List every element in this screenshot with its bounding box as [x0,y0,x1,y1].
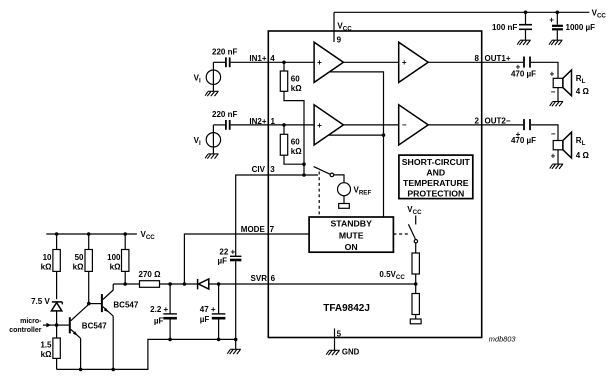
svg-text:4 Ω: 4 Ω [576,87,590,96]
junction top rail / 100nF [524,11,528,15]
svg-text:kΩ: kΩ [41,263,52,272]
wire VCC rail left [46,233,137,235]
wire 60k ch2 bottom to CIV riser [284,155,304,164]
junction top rail / 1000uF [556,11,560,15]
loudspeaker R_L channel 1 [553,70,571,96]
resistor 50 kOhm [85,234,92,303]
svg-text:OUT2−: OUT2− [485,117,511,126]
svg-text:VCC: VCC [141,230,156,241]
wire OUT2 pin 2 to capacitor [428,124,523,126]
reference plate under VREF [339,196,350,209]
svg-text:4 Ω: 4 Ω [576,151,590,160]
wire IN2 from source to capacitor [213,124,225,126]
op-amp A1 input stage channel 1 [314,42,343,82]
svg-text:0.5VCC: 0.5VCC [379,270,405,281]
svg-text:2.2 +: 2.2 + [150,305,168,314]
signal source V_I channel 1 [206,62,220,91]
ground under V_I channel 1 [205,91,219,96]
resistor 10 kOhm [53,234,60,299]
svg-text:MUTE: MUTE [339,230,364,240]
junction rail / Q1 emitter [79,368,83,372]
capacitor 220 nF channel 2 [226,120,230,130]
wire divider mid [415,274,417,294]
ground symbol pin 5 [326,350,340,355]
junction ground line / 2.2uF [168,338,172,342]
ground under 100nF [517,40,531,45]
svg-text:GND: GND [342,347,360,356]
loudspeaker R_L channel 2 [553,132,571,158]
wire VCC top rail [334,11,589,13]
svg-text:micro-: micro- [20,318,42,325]
standby block text [331,218,373,252]
svg-text:STANDBY: STANDBY [331,218,373,228]
arrow from microcontroller [43,323,57,328]
svg-text:2: 2 [474,117,479,126]
svg-text:470 µF: 470 µF [511,69,536,78]
svg-text:1000 µF: 1000 µF [566,23,596,32]
wire pin 9 supply drop [333,12,335,42]
svg-text:IN2+: IN2+ [249,117,266,126]
svg-text:kΩ: kΩ [73,263,84,272]
signal source V_I channel 2 [206,125,220,154]
dashed link CIV switch to standby block [318,172,320,218]
svg-text:7: 7 [270,225,275,234]
junction ground line / 47uF [217,338,221,342]
svg-text:4: 4 [270,54,275,63]
value label 47 uF [200,305,216,324]
capacitor 1000 uF electrolytic [552,12,563,40]
wire CIV pin 3 [236,175,318,256]
wire feedback tap channel 1 [329,72,383,217]
zener diode 7.5 V [51,302,62,338]
resistor 60 kOhm channel 1 [280,62,287,91]
node label micro-controller [9,318,42,334]
wire 470uF ch1 to speaker [531,62,558,101]
capacitor 2.2 uF [163,284,177,339]
op-amp A4 power stage channel 2 [399,105,429,145]
svg-text:ON: ON [345,242,358,252]
wire A1 output to A3 input [343,61,398,63]
junction rail / 10k [55,232,59,236]
ground under 1000uF [549,40,563,45]
wire 60k ch1 bottom to CIV node [284,91,304,175]
svg-text:VREF: VREF [354,186,372,197]
wire SVR inside IC to divider [268,283,415,285]
wire OUT1 pin 8 to capacitor [428,61,523,63]
svg-text:BC547: BC547 [113,300,138,309]
ground under speaker 2 [550,164,564,169]
ground under V_I channel 2 [205,154,219,159]
svg-text:SHORT-CIRCUIT: SHORT-CIRCUIT [402,157,471,167]
svg-text:470 µF: 470 µF [511,136,536,145]
junction IN2 / 60k ch2 [282,123,286,127]
svg-text:PROTECTION: PROTECTION [407,188,464,198]
svg-text:1: 1 [271,117,276,126]
junction Q1 collector / Q2 base / 50k [87,302,91,306]
ground symbol filter line [227,349,241,354]
capacitor 47 uF [212,284,226,339]
wire 470uF ch2 to speaker [531,125,558,164]
svg-text:+: + [317,58,322,67]
svg-text:50: 50 [75,253,84,262]
wire switch to VREF [334,175,344,183]
svg-text:10: 10 [43,253,52,262]
svg-text:100 nF: 100 nF [492,23,517,32]
svg-text:7.5 V: 7.5 V [31,297,50,306]
junction SVR / MODE riser [183,282,187,286]
svg-text:mdb803: mdb803 [489,334,517,343]
svg-text:controller: controller [9,327,42,334]
junction 60k ch2 / CIV riser [302,162,306,166]
svg-text:+: + [402,58,407,67]
protection block text [402,157,471,199]
svg-text:60: 60 [291,138,300,147]
value label 2.2 uF [150,305,168,325]
svg-text:RL: RL [576,136,586,147]
source VREF [338,183,351,196]
svg-text:220 nF: 220 nF [212,110,237,119]
IC U1 TFA9842J outline [268,31,481,338]
junction rail / 50k [87,232,91,236]
capacitor 22 uF [230,256,241,339]
svg-text:220 nF: 220 nF [212,48,237,57]
junction 100k / SVR wire [123,282,127,286]
junction divider / SVR [414,282,418,286]
wire IN2 capacitor to op-amp A2 [231,124,315,126]
switch CIV standby lever [314,167,334,177]
svg-text:3: 3 [270,165,275,174]
svg-text:MODE: MODE [241,225,266,234]
junction SVR / 47uF [217,282,221,286]
svg-text:CIV: CIV [252,165,266,174]
svg-text:6: 6 [271,274,276,283]
svg-text:270 Ω: 270 Ω [139,270,162,279]
svg-text:100: 100 [107,253,121,262]
svg-text:SVR: SVR [251,274,268,283]
capacitor 470 uF channel 1 [524,57,530,68]
svg-text:−: − [402,121,407,130]
wire node to Q2 base [89,303,101,305]
wire IN1 capacitor to op-amp A1 [231,61,315,63]
dashed link standby block to mute switch [393,233,410,235]
svg-text:−: − [551,130,556,139]
svg-text:+: + [551,151,556,160]
svg-text:kΩ: kΩ [291,147,302,156]
svg-text:µF: µF [218,256,228,265]
wire IN1 from source to capacitor [213,61,225,63]
svg-text:kΩ: kΩ [41,350,52,359]
svg-text:47 +: 47 + [200,305,216,314]
svg-text:VI: VI [194,74,201,85]
capacitor 470 uF channel 2 [524,119,530,130]
wire micro node to Q1 base [57,324,69,326]
resistor divider upper half [412,253,419,274]
resistor 60 kOhm channel 2 [280,125,287,155]
capacitor 220 nF channel 1 [226,57,230,67]
svg-text:+: + [550,69,555,78]
transistor Q2 BC547 [102,284,113,369]
wire A2 output to A4 input [343,124,398,126]
junction IN1 / 60k ch1 [282,61,286,65]
value label 22 uF [218,248,236,266]
svg-text:60: 60 [291,74,300,83]
ground stub of filter line [235,339,237,349]
wire diode to SVR pin 6 [209,283,268,285]
svg-text:VCC: VCC [407,205,422,216]
svg-text:BC547: BC547 [82,322,107,331]
diode D1 [198,279,209,289]
junction SVR / 2.2uF [168,282,172,286]
wire pin 5 GND [334,329,336,351]
svg-text:8: 8 [474,54,479,63]
svg-text:5: 5 [337,330,342,339]
junction microcontroller node [55,323,59,327]
protection block SHORT-CIRCUIT AND TEMPERATURE PROTECTION [399,155,473,199]
junction rail / Q2 emitter [111,368,115,372]
wire MODE pin 7 [184,234,309,284]
svg-text:AND: AND [426,168,445,178]
resistor 100 kOhm [122,234,129,284]
svg-text:OUT1+: OUT1+ [485,54,511,63]
op-amp A2 input stage channel 2 [314,105,343,145]
junction feedback ch2 / riser [382,133,386,137]
wire feedback tap channel 2 [329,134,384,136]
resistor divider lower half [412,294,419,315]
svg-text:9: 9 [337,35,342,44]
svg-text:+: + [549,15,554,24]
svg-text:RL: RL [576,74,586,85]
svg-text:kΩ: kΩ [110,263,121,272]
resistor 1.5 kOhm [53,338,60,369]
wire mute switch to divider [415,243,417,253]
wire VCC stub to mute switch [415,216,417,225]
wire 270 Ohm to diode [160,283,198,285]
svg-text:+: + [317,121,322,130]
svg-text:IN1+: IN1+ [249,54,266,63]
resistor 270 Ohm [140,281,160,288]
svg-text:VI: VI [194,136,201,147]
svg-text:µF: µF [200,315,210,324]
junction CIV riser / CIV wire [302,173,306,177]
capacitor 100 nF decoupling [519,12,532,40]
svg-text:µF: µF [154,316,164,325]
junction rail / 100k [123,232,127,236]
standby block STANDBY MUTE ON [309,217,393,252]
op-amp A3 power stage channel 1 [399,42,429,82]
ground under speaker 1 [550,102,564,107]
svg-text:1.5: 1.5 [40,340,52,349]
junction ground line / 22uF [234,338,238,342]
svg-text:kΩ: kΩ [291,84,302,93]
reference plate under divider [410,315,421,324]
svg-text:−: − [551,87,556,96]
transistor Q1 BC547 [70,304,89,369]
svg-text:TFA9842J: TFA9842J [323,303,370,314]
svg-text:TEMPERATURE: TEMPERATURE [403,178,469,188]
wire emitter ground rail [57,339,236,369]
svg-text:VCC: VCC [592,8,607,19]
switch mute lever [408,224,417,243]
wire SVR node from Q2 collector [113,283,139,285]
